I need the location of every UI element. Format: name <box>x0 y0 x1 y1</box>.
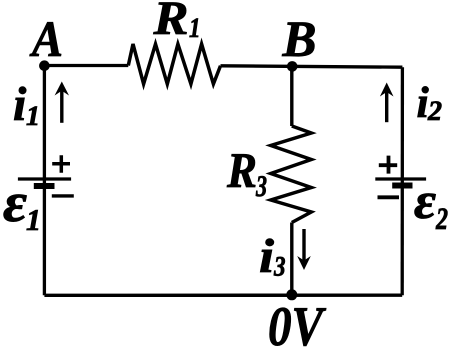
wire: B down to R3 <box>290 66 293 126</box>
wire: top-left segment A to R1 <box>44 64 128 67</box>
wire: R3 down to bottom node <box>290 223 293 296</box>
battery E1 short plate (-) <box>34 183 55 189</box>
wire: right side corner down to bottom <box>401 67 404 295</box>
wire: top segment R1 to right corner <box>221 66 403 67</box>
svg-text:1: 1 <box>189 13 201 44</box>
svg-text:B: B <box>282 12 317 68</box>
current arrow i2 (up) <box>380 83 394 123</box>
svg-text:R: R <box>226 142 257 198</box>
svg-text:3: 3 <box>273 252 285 283</box>
resistor R3 <box>271 126 312 223</box>
svg-text:3: 3 <box>255 170 267 203</box>
battery E1 plus sign <box>52 155 70 173</box>
svg-text:2: 2 <box>435 201 448 236</box>
resistor R1 <box>128 44 220 84</box>
wire: left side A down to bottom <box>43 66 46 296</box>
svg-text:i: i <box>259 230 275 283</box>
node A <box>39 60 50 71</box>
svg-text:1: 1 <box>26 204 41 237</box>
svg-text:ε: ε <box>414 173 436 230</box>
battery E1 long plate (+) <box>18 177 71 180</box>
svg-text:ε: ε <box>3 172 27 234</box>
svg-text:2: 2 <box>427 96 442 127</box>
current arrow i1 (up) <box>55 82 69 123</box>
battery E2 plus sign <box>379 156 397 174</box>
node 0V junction <box>286 289 297 300</box>
node B <box>287 61 298 72</box>
battery E2 long plate (+) <box>375 177 426 180</box>
wire: bottom run <box>44 294 402 297</box>
svg-text:R: R <box>152 0 188 45</box>
battery E2 minus sign <box>378 195 400 199</box>
current arrow i3 (down) <box>297 229 311 270</box>
battery E1 minus sign <box>52 194 74 197</box>
svg-text:i: i <box>13 78 27 131</box>
svg-text:A: A <box>29 12 63 68</box>
svg-text:1: 1 <box>26 101 40 132</box>
battery E2 short plate (-) <box>392 183 412 189</box>
svg-text:0V: 0V <box>268 296 327 354</box>
